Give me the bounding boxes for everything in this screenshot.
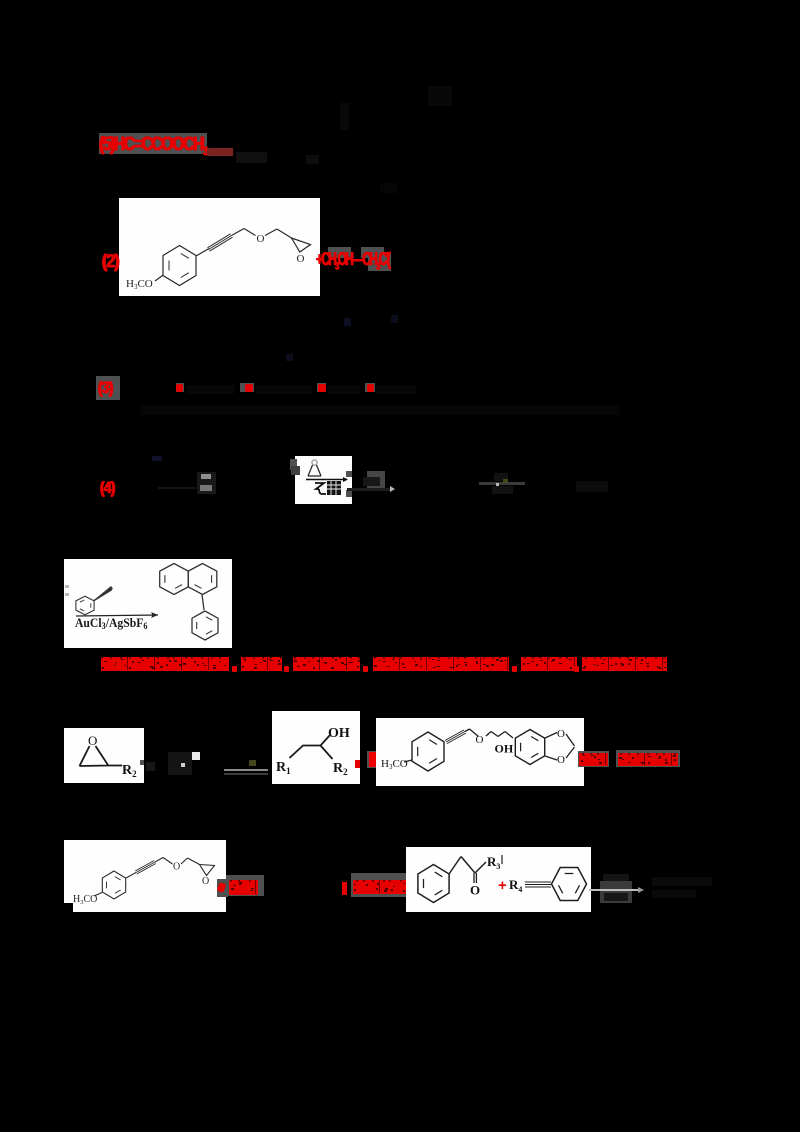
red text blob [353, 879, 411, 894]
svg-text:O: O [476, 734, 484, 746]
svg-text:O: O [557, 754, 565, 766]
small scheme box: epoxide over ether arrow [295, 456, 352, 504]
arrow with H2O [367, 471, 385, 488]
svg-text:H3CO: H3CO [126, 278, 153, 291]
red text blob [101, 656, 229, 671]
red text blob [293, 656, 360, 671]
box D: methoxyphenyl propargyl glycidyl ether (bottom) [64, 840, 226, 912]
faint text remnants top [340, 103, 349, 130]
red reagent text [316, 249, 389, 273]
svg-text:R3: R3 [487, 854, 500, 871]
red text blob [229, 879, 258, 895]
red text blob [241, 656, 282, 671]
red blob char [367, 751, 384, 768]
red label (2) [102, 251, 119, 272]
svg-text:+: + [498, 877, 507, 894]
red semicolon + CH3OH blob [351, 873, 413, 897]
dark red smear [207, 148, 233, 156]
svg-text:R4: R4 [509, 877, 522, 894]
second faint arrow [479, 482, 525, 485]
red text blob [521, 656, 577, 671]
gray patches on edges [290, 459, 297, 470]
svg-text:H3CO: H3CO [381, 758, 408, 771]
faint double arrow [224, 769, 268, 771]
red text blob [373, 656, 509, 671]
red comma after box B [355, 760, 360, 768]
red text after box C [578, 751, 609, 767]
svg-text:O: O [470, 883, 480, 898]
svg-text:R2: R2 [333, 761, 348, 777]
highlight behind (5) formula [99, 133, 207, 154]
red comma + blob after box D [217, 879, 228, 897]
red text blob [579, 752, 608, 766]
svg-text:O: O [257, 233, 265, 245]
highlight (3) [96, 376, 120, 400]
svg-text:OH: OH [495, 742, 514, 756]
red label (4) [100, 478, 115, 498]
faint plus + reagent [146, 762, 155, 771]
red formula (5)HC=CCOOCH3 [99, 134, 207, 158]
faint gray text after [236, 152, 267, 163]
scheme box: phenylacetylene -> 1-phenylnaphthalene [64, 559, 232, 648]
faint text right of arrow [652, 877, 712, 886]
faint reagent fragment [197, 472, 216, 494]
svg-text:OH: OH [328, 726, 350, 741]
gray patches [328, 247, 351, 258]
svg-text:O: O [557, 728, 565, 740]
faint blue dash [152, 456, 162, 461]
svg-text:O: O [173, 862, 180, 873]
red comma marks row 3 [176, 383, 184, 392]
svg-text:R1: R1 [276, 760, 291, 776]
red label (3) [98, 378, 113, 398]
box B: secondary alcohol R1 R2 OH [272, 711, 360, 784]
svg-text:R2: R2 [122, 763, 137, 779]
red text blob [618, 752, 678, 766]
box C: big product structure [376, 718, 584, 786]
arrow after box E [600, 881, 632, 903]
svg-text:O: O [297, 253, 305, 265]
structure image box: 4-methoxyphenyl propargyl glycidyl ether [119, 198, 320, 296]
faint answer text row3 [186, 385, 234, 394]
box A: epoxide R2 [64, 728, 144, 783]
box E: ketone + alkyne [406, 847, 591, 912]
faint blue marks [344, 318, 351, 326]
red text blob [582, 656, 667, 671]
svg-text:AuCl3/AgSbF6: AuCl3/AgSbF6 [75, 615, 148, 631]
faint marks right [576, 481, 608, 492]
svg-text:O: O [202, 876, 209, 887]
svg-text:H3CO: H3CO [73, 894, 97, 906]
